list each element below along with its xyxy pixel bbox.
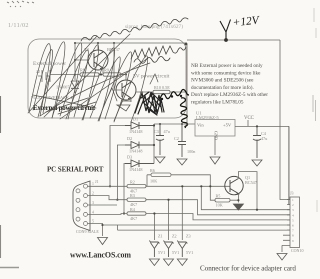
svg-text:2: 2 <box>292 203 294 207</box>
wire Q1 collector <box>238 172 257 210</box>
ground under C3 <box>155 157 165 163</box>
wire row2 net <box>146 200 290 215</box>
resistor R8 <box>80 73 99 76</box>
junction dots diode rail <box>153 124 155 126</box>
svg-text:1N4148: 1N4148 <box>129 149 143 154</box>
left edge smudge 2 <box>0 225 2 258</box>
svg-text:R5: R5 <box>216 194 221 199</box>
zener Z1 <box>149 241 159 258</box>
wire T1 connections <box>114 43 131 105</box>
junction dot gnd bus tap <box>101 224 103 226</box>
wire T2 top <box>75 43 187 80</box>
svg-text:D1: D1 <box>133 117 138 122</box>
scribble tall loop mid extra <box>60 50 88 117</box>
NB NOTE TEXT <box>191 63 268 106</box>
svg-text:Vin: Vin <box>197 123 204 128</box>
scribble long diagonal 1 <box>28 36 97 113</box>
power jack J2 <box>38 70 50 82</box>
scribble long diagonal 2 <box>44 34 130 117</box>
ground under DB9 <box>98 238 108 245</box>
svg-text:5V power circuit: 5V power circuit <box>133 74 170 80</box>
svg-text:Z1: Z1 <box>158 234 163 239</box>
svg-text:+5V: +5V <box>223 123 232 128</box>
MAIN RAILS <box>187 40 280 124</box>
scribble dense patch <box>135 92 164 115</box>
wire input line to Vin <box>154 123 187 125</box>
resistor R9 <box>103 73 121 76</box>
svg-text:4: 4 <box>92 210 94 214</box>
scribble flat stroke <box>33 95 96 108</box>
wire diode rail <box>153 124 155 164</box>
pin numbers <box>92 182 94 223</box>
zener Z2 <box>164 241 174 258</box>
op-amp U1 box <box>195 120 235 137</box>
corner handwriting mark top-left <box>7 1 34 7</box>
capacitor C2 <box>178 124 186 157</box>
scribble long diagonal 3 <box>60 58 148 119</box>
svg-text:R9: R9 <box>104 68 109 73</box>
scribble tall loop extra left <box>33 50 53 113</box>
svg-text:5V1: 5V1 <box>158 250 165 255</box>
ground under T1 <box>117 101 131 111</box>
resistor R6 <box>151 173 171 177</box>
svg-text:C2: C2 <box>174 136 179 141</box>
scribble scallop row on top edge <box>81 18 188 41</box>
svg-text:R2: R2 <box>130 180 135 185</box>
scribble tall loop 1 <box>29 44 50 116</box>
capacitor C3 <box>156 124 164 155</box>
diode D8 down <box>71 81 79 93</box>
svg-text:siprog_base.png (741x627): siprog_base.png (741x627) <box>125 23 183 30</box>
svg-text:R3: R3 <box>130 193 135 198</box>
junction dots diode feeds <box>109 185 111 187</box>
scribble tall loop 2 <box>38 42 65 118</box>
wire zener Z1 vertical <box>153 214 155 241</box>
scribble tall loop 7 <box>114 56 148 122</box>
junction dot at +12V <box>224 38 228 42</box>
wire R10 <box>136 91 186 93</box>
svg-text:5: 5 <box>292 218 294 222</box>
svg-text:PC SERIAL PORT: PC SERIAL PORT <box>47 166 104 174</box>
ground under connector <box>277 254 287 261</box>
wire resistor row <box>50 74 126 76</box>
svg-text:BC547: BC547 <box>245 180 257 185</box>
wire R5 <box>210 186 238 200</box>
svg-text:1N4148: 1N4148 <box>129 167 143 172</box>
svg-text:documentation for more info).: documentation for more info). <box>191 84 254 91</box>
junction dots T2 area <box>74 42 76 44</box>
wire zener Z2 vertical <box>168 200 170 240</box>
svg-text:47u: 47u <box>261 136 268 141</box>
svg-text:10K: 10K <box>216 203 223 208</box>
ground under Q1 <box>233 204 243 210</box>
connector pin numbers <box>292 198 294 243</box>
wire diode feeds <box>110 126 125 214</box>
scribble loop row 3 <box>134 57 170 64</box>
wire U1 output <box>215 126 289 200</box>
wire Q1 emitter <box>237 194 239 203</box>
svg-text:5: 5 <box>92 220 94 224</box>
svg-text:6: 6 <box>292 224 294 228</box>
diode D2 <box>125 142 154 149</box>
pen coil vertical <box>180 98 187 128</box>
transistor T1 <box>116 80 136 100</box>
svg-text:www.LancOS.com: www.LancOS.com <box>70 251 131 260</box>
svg-text:3: 3 <box>292 208 294 212</box>
svg-text:with some consuming device lik: with some consuming device like <box>191 70 261 76</box>
wires after resistors <box>146 186 290 240</box>
svg-text:Z3: Z3 <box>186 234 191 239</box>
junction dot C2 tap <box>181 123 183 125</box>
wire +12V top rail <box>187 39 280 41</box>
wire row1 drop to connector pin3 <box>201 186 290 209</box>
scribble zigzag row 2 <box>131 46 186 59</box>
svg-text:Don't replace LM2936Z-5 with o: Don't replace LM2936Z-5 with other <box>191 92 268 98</box>
svg-text:2: 2 <box>92 192 94 196</box>
ground under Z3 <box>177 259 187 266</box>
svg-text:3: 3 <box>92 201 94 205</box>
ground under Z1 <box>149 259 159 266</box>
scribble tall loop mid extra 2 <box>90 57 120 119</box>
svg-text:J1: J1 <box>95 179 99 184</box>
svg-text:1: 1 <box>292 198 294 202</box>
wire zener Z3 vertical <box>181 186 183 240</box>
transistor Q1 <box>225 176 243 194</box>
diode D3 <box>125 160 154 167</box>
wire VCC tick <box>247 120 249 126</box>
svg-text:J3: J3 <box>290 191 294 196</box>
connector J3 box <box>290 197 300 248</box>
svg-text:CON9 MALE: CON9 MALE <box>76 229 99 234</box>
wire U1 gnd <box>214 136 216 155</box>
svg-text:4K7: 4K7 <box>130 216 137 221</box>
svg-text:9: 9 <box>292 239 294 243</box>
scribble small vees <box>104 74 158 105</box>
junction dot between resistors <box>100 73 102 75</box>
svg-text:R10 0.5E: R10 0.5E <box>154 85 170 90</box>
scribble tall loop 6 <box>98 52 132 122</box>
svg-text:VCC: VCC <box>244 116 254 121</box>
left edge smudge 1 <box>0 96 2 133</box>
svg-text:8: 8 <box>292 234 294 238</box>
junction dot Vin rail <box>186 123 188 125</box>
ground under Z2 <box>164 259 174 266</box>
svg-text:100n: 100n <box>187 149 196 154</box>
svg-text:C3: C3 <box>154 129 159 134</box>
zener Z3 <box>177 241 187 258</box>
resistor R3 <box>127 198 146 201</box>
svg-text:regulators like LM78L05: regulators like LM78L05 <box>191 100 244 106</box>
svg-text:4: 4 <box>292 213 294 217</box>
connector pin stubs <box>287 200 290 246</box>
scribble tall loop 3 <box>52 43 82 119</box>
PEN SCRIBBLES <box>28 18 188 122</box>
svg-text:1N4148: 1N4148 <box>129 129 143 134</box>
gnd bus wire <box>103 225 291 230</box>
capacitor C4 <box>253 126 261 158</box>
ground under U1 <box>210 157 220 164</box>
wire left rail down from box corner to U1 Vin <box>187 44 195 124</box>
svg-text:LM2936Z-5: LM2936Z-5 <box>196 115 219 120</box>
junction dot collector net <box>256 209 258 211</box>
diode D1 <box>125 122 154 129</box>
resistor R4 <box>127 212 146 215</box>
scribble tall loop 4 <box>66 45 99 120</box>
svg-text:GND: GND <box>214 131 219 140</box>
connector CON9 DB9 shape <box>73 181 90 231</box>
svg-text:Z2: Z2 <box>172 234 177 239</box>
svg-text:D2: D2 <box>127 136 132 141</box>
bottom left smudge <box>0 267 19 269</box>
transistor T2 <box>88 50 108 70</box>
box External power circuit <box>28 39 186 118</box>
scribble wide arc lower <box>40 63 150 116</box>
junction dots resistor rails <box>153 212 155 214</box>
junction dot R5 base node <box>209 185 211 187</box>
junction dots pen <box>161 98 163 100</box>
wire row1 net to Q1 base <box>146 185 230 187</box>
svg-text:Connector for device adapter c: Connector for device adapter card <box>200 265 296 273</box>
pin wires db9 <box>88 186 128 236</box>
svg-text:NVM3060 and SDE2506 (see: NVM3060 and SDE2506 (see <box>191 77 254 84</box>
resistor R10 <box>153 90 170 93</box>
DB9 pins left column <box>76 189 80 221</box>
svg-text:7: 7 <box>292 229 294 233</box>
DB9 pins right column <box>84 184 88 225</box>
wire VCC to connector <box>280 40 290 252</box>
resistor R5 <box>215 198 230 202</box>
junction dot C3 tap <box>159 123 161 125</box>
svg-text:10K: 10K <box>150 179 157 184</box>
+12V hand arrow <box>220 20 231 41</box>
svg-text:R6: R6 <box>150 168 155 173</box>
wire R6 to base node <box>147 175 210 187</box>
junction dot VCC <box>256 125 258 127</box>
scribble tall loop 5 <box>82 48 115 121</box>
ground under C4 <box>252 160 262 166</box>
ground under C2 <box>177 159 187 165</box>
svg-text:CON10: CON10 <box>291 248 303 253</box>
svg-text:47u: 47u <box>164 129 171 134</box>
right edge scan marks <box>314 8 316 38</box>
pen inductor bumps <box>160 90 189 129</box>
svg-text:1/11/02: 1/11/02 <box>8 22 29 29</box>
svg-text:5V1: 5V1 <box>186 250 193 255</box>
svg-text:1: 1 <box>92 182 94 186</box>
svg-text:5V1: 5V1 <box>172 250 179 255</box>
resistor R2 <box>127 185 146 188</box>
svg-text:NB External power is needed on: NB External power is needed only <box>191 63 263 69</box>
wire row3 net <box>146 214 290 220</box>
svg-text:D3: D3 <box>127 155 132 160</box>
scribble short strokes near label <box>46 98 96 114</box>
